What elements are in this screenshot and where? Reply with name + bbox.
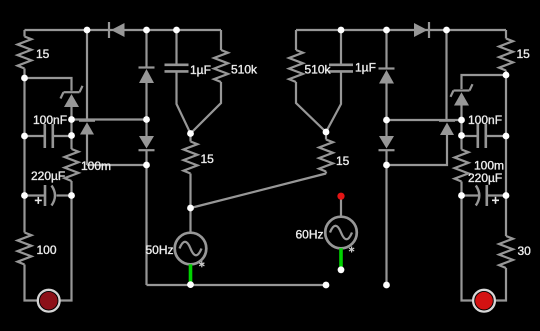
wire bottom rail: [147, 284, 327, 286]
wire right rail bottom to lamp: [495, 268, 507, 301]
svg-text:60Hz: 60Hz: [295, 228, 323, 242]
wire column x447 with corner to y165: [445, 30, 447, 120]
capacitor 100nF (right): [462, 124, 507, 148]
node funnel right: [323, 129, 330, 136]
svg-text:1µF: 1µF: [190, 63, 211, 77]
node left rail y136: [21, 133, 28, 140]
wire right lamp left leg: [462, 196, 474, 301]
resistor 100m (left): [65, 149, 79, 181]
node right zener col y196: [458, 192, 465, 199]
capacitor 1uF (left): [165, 30, 191, 134]
resistor 510k (right): [289, 30, 326, 132]
asterisk 50Hz: [199, 261, 204, 267]
lamp L1 (left, dark): [38, 290, 60, 312]
resistor 15 (middle left): [184, 134, 198, 209]
resistor 15 (middle right): [319, 132, 333, 174]
node right rail y196: [503, 192, 510, 199]
voltage source 60Hz: [325, 197, 357, 248]
node top rail x386: [383, 27, 390, 34]
wire left lamp right leg: [60, 196, 72, 301]
voltage source 50Hz: [175, 208, 207, 264]
svg-text:30: 30: [518, 244, 532, 258]
node left rail y78: [21, 75, 28, 82]
node right zener col y120: [458, 117, 465, 124]
svg-text:510k: 510k: [305, 63, 332, 77]
lamp L2 (right, lit): [473, 290, 495, 312]
diode D2 (x87, pointing up): [79, 121, 95, 165]
wire left rail mid: [23, 69, 25, 233]
svg-text:510k: 510k: [231, 62, 258, 76]
wire node row y119.5 (left): [72, 118, 147, 120]
node top rail x176: [173, 27, 180, 34]
wire right rail vertical: [505, 30, 507, 39]
wire green terminal 50Hz: [189, 264, 193, 283]
svg-text:100nF: 100nF: [468, 113, 502, 127]
resistor 15 (top left rail): [18, 37, 32, 69]
svg-text:100: 100: [37, 243, 57, 257]
diode D8 (x447, pointing up): [387, 121, 456, 165]
resistor 100m (right): [455, 150, 469, 182]
zener diode Z2 (right, pointing up): [451, 84, 473, 149]
wire right rail mid: [505, 71, 507, 237]
zener diode Z1 (left, pointing up): [61, 86, 83, 149]
node funnel left: [187, 130, 194, 137]
node right rail y75: [503, 72, 510, 79]
node 50Hz bottom: [187, 281, 194, 288]
svg-text:15: 15: [517, 47, 531, 61]
wire zener branch top right: [462, 75, 507, 89]
wire top rail right: [296, 29, 506, 31]
node x386 bottom: [383, 282, 390, 289]
wire top rail left: [25, 29, 222, 31]
node x146 y119: [143, 116, 150, 123]
wire node row y165 (left): [87, 164, 147, 166]
wire left rail bottom to lamp: [25, 265, 39, 301]
diode D4 (x146 lower, pointing down): [139, 136, 155, 285]
resistor 15 (top right rail): [499, 39, 513, 71]
svg-text:220µF: 220µF: [31, 169, 65, 183]
node top rail x447: [443, 27, 450, 34]
wire green terminal 60Hz: [339, 248, 343, 267]
svg-text:15: 15: [336, 154, 350, 168]
svg-text:15: 15: [36, 47, 50, 61]
resistor 30 (bottom right rail): [499, 236, 513, 268]
node top rail x146: [143, 27, 150, 34]
node bottom rail end: [323, 282, 330, 289]
node top rail x87: [84, 27, 91, 34]
svg-text:100m: 100m: [81, 159, 111, 173]
capacitor 220uF (left, electrolytic): [25, 185, 72, 206]
svg-text:15: 15: [201, 152, 215, 166]
node 60Hz bottom: [338, 266, 345, 273]
wire middle column x146: [145, 30, 147, 68]
wire below 100m: [70, 181, 72, 196]
node zener col y196: [68, 192, 75, 199]
capacitor 1uF (right): [326, 30, 353, 132]
node left rail y196: [21, 192, 28, 199]
svg-text:50Hz: 50Hz: [145, 243, 173, 257]
diode D6 (x386 upper, pointing up): [379, 69, 395, 137]
wire column x386: [385, 30, 387, 69]
node right zener col y135: [458, 132, 465, 139]
wire column x87 from top rail: [86, 30, 88, 120]
polarity plus right 220uF: [492, 197, 499, 204]
resistor 510k (left): [191, 30, 229, 134]
node zener col y135: [68, 132, 75, 139]
polarity plus left 220uF: [35, 197, 42, 204]
node zener col y119: [68, 116, 75, 123]
node x146 y165: [143, 162, 150, 169]
asterisk 60Hz: [349, 247, 354, 253]
wire diagonal cross connection: [191, 174, 327, 209]
node x386 y120: [383, 117, 390, 124]
diode D7 (x386 lower, pointing down): [379, 136, 395, 285]
wire below 100m right: [460, 182, 462, 196]
svg-text:100nF: 100nF: [33, 113, 67, 127]
svg-text:220µF: 220µF: [468, 171, 502, 185]
node x386 y165: [383, 162, 390, 169]
wire left rail vertical: [23, 30, 25, 37]
node right rail y136: [503, 133, 510, 140]
diode D1 (top rail left, pointing left): [109, 22, 125, 38]
resistor 100 (bottom left rail): [18, 233, 32, 265]
wire zener branch top (24.5,78)-(71.5,78): [25, 78, 72, 91]
wire node row y120 (right): [387, 119, 462, 121]
node diagonal left: [187, 205, 194, 212]
capacitor 100nF (left): [25, 124, 72, 148]
diode D5 (top rail right, pointing right): [414, 22, 429, 38]
node top rail x341: [338, 27, 345, 34]
capacitor 220uF (right, electrolytic): [462, 185, 507, 206]
diode D3 (x146 upper, pointing up): [139, 68, 155, 137]
node red post 60Hz top: [337, 193, 344, 200]
svg-text:1µF: 1µF: [355, 61, 376, 75]
